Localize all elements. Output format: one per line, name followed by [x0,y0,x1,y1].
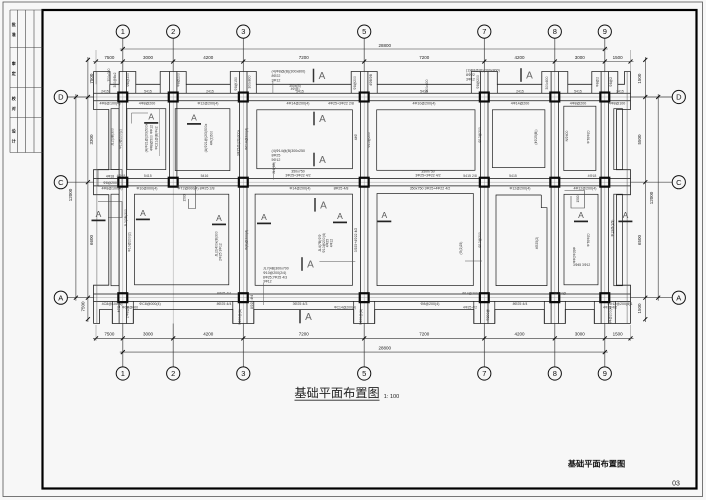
svg-text:1: 1 [121,27,125,36]
svg-text:4ΦB: 4ΦB [117,305,121,313]
svg-text:A: A [261,212,267,222]
column 5C [360,178,369,187]
grid line axis 3 [242,38,244,367]
svg-text:ΦT6Φ20: ΦT6Φ20 [587,130,591,143]
strip footing axis 1 [118,72,120,324]
svg-text:Φ10@000(4): Φ10@000(4) [137,186,158,190]
svg-text:28800: 28800 [379,43,392,48]
room footing edge 78 row D-C [492,110,545,168]
axis bubble A right [672,291,685,304]
svg-text:JL1(1B): JL1(1B) [272,162,276,174]
svg-text:6600: 6600 [89,234,94,245]
svg-text:Φ12@200(4): Φ12@200(4) [198,101,219,105]
svg-text:4Φ8@200: 4Φ8@200 [570,101,587,105]
svg-text:4Φ25+3Φ22 2/8: 4Φ25+3Φ22 2/8 [328,101,354,105]
axis bubble 9 bottom [598,367,611,380]
svg-text:ΦC18@200(4): ΦC18@200(4) [245,128,249,150]
svg-text:1500: 1500 [613,55,624,60]
svg-text:1500: 1500 [576,195,580,202]
svg-text:7500: 7500 [81,301,86,312]
left wall inner line [96,72,98,324]
room footing edge 9R row D-C [614,109,623,170]
svg-text:300x800: 300x800 [425,79,429,92]
svg-text:Φ8@200: Φ8@200 [476,75,480,89]
strip footing D [94,92,631,94]
svg-text:4Φ12@200(4): 4Φ12@200(4) [574,186,597,190]
svg-text:7500: 7500 [104,332,115,337]
svg-text:4Φ12: 4Φ12 [329,239,333,247]
svg-text:ΦT2@000(4) 8Φ25 2/8: ΦT2@000(4) 8Φ25 2/8 [178,186,215,190]
svg-text:8Φ25: 8Φ25 [272,154,281,158]
svg-text:300@Bx2: 300@Bx2 [113,72,117,87]
svg-text:3Φ25+3Φ22 4/2: 3Φ25+3Φ22 4/2 [415,174,440,178]
strip footing axis 9 [600,72,602,324]
svg-text:4Φ8@100(4): 4Φ8@100(4) [100,101,121,105]
column 1D [118,92,127,101]
room footing edge 9R row C-A [614,194,623,286]
svg-text:ΦΦ2Φ39Φ: ΦΦ2Φ39Φ [573,246,577,263]
svg-text:4200: 4200 [203,332,214,337]
section cut A top notch 3-5 [313,69,315,83]
svg-text:7200: 7200 [419,332,430,337]
svg-text:3Φ25+4Φ22 4/2: 3Φ25+4Φ22 4/2 [354,228,358,252]
svg-text:Φ8@200(4): Φ8@200(4) [421,302,440,306]
svg-text:1: 1 [121,369,125,378]
axis bubble 5 top [358,25,371,38]
leader room 3-5 C-A [263,283,265,305]
svg-text:4Φ8@100: 4Φ8@100 [609,101,626,105]
grid line axis 1 [122,38,124,367]
room footing edge 12 row D-C [127,109,166,170]
axis bubble 7 bottom [478,367,491,380]
grid line axis A [67,297,672,299]
svg-text:Φ10@200(2): Φ10@200(2) [119,129,123,149]
svg-text:(A)Φ21@(2/3)500x: (A)Φ21@(2/3)500x [145,123,149,152]
column 9C [600,178,609,187]
svg-text:3000: 3000 [575,55,586,60]
svg-text:JL2(3B)300: JL2(3B)300 [124,209,128,227]
room footing edge 57 row C-A [377,194,473,286]
svg-text:3300: 3300 [89,134,94,145]
svg-text:300x800: 300x800 [248,75,252,88]
column 5A [360,293,369,302]
svg-text:2415: 2415 [101,89,109,93]
leader room 3-5 C-A right [319,260,355,262]
svg-text:批: 批 [12,21,16,27]
svg-text:8Φ25 4/4: 8Φ25 4/4 [217,302,232,306]
axis bubble 7 top [478,25,491,38]
step leader room 8-9 below C [565,191,585,209]
svg-text:Φ14@200(4): Φ14@200(4) [290,186,311,190]
svg-text:C: C [58,178,64,187]
svg-text:Φ8@2: Φ8@2 [609,77,613,87]
svg-text:12000: 12000 [68,188,73,201]
svg-text:4Φ18: 4Φ18 [588,174,597,178]
svg-text:Φ200@(A): Φ200@(A) [359,309,363,325]
svg-text:9: 9 [603,369,607,378]
svg-text:5: 5 [362,27,366,36]
column 8C [550,178,559,187]
grid line axis 2 [172,38,174,367]
svg-text:对: 对 [12,105,16,111]
svg-text:3Φ12: 3Φ12 [263,280,272,284]
svg-text:A: A [96,209,102,219]
svg-text:3Φ25+3Φ22 4/2: 3Φ25+3Φ22 4/2 [285,174,310,178]
svg-text:ΦT6Φ20: ΦT6Φ20 [587,233,591,246]
svg-text:A: A [307,260,314,271]
svg-text:ΦC14@200(4): ΦC14@200(4) [334,305,356,309]
svg-text:3Φ45 3Φ12: 3Φ45 3Φ12 [573,263,590,267]
strip footing axis 8 [550,72,552,324]
room footing edge 57 row D-C [377,110,475,171]
room footing edge 78 row C-A (with corner notch) [496,195,547,286]
svg-text:C: C [676,178,682,187]
svg-text:7200: 7200 [419,55,430,60]
column 3D [239,92,248,101]
svg-text:Φ8@200: Φ8@200 [103,181,117,185]
svg-text:A: A [319,114,326,125]
extension line right end top [630,50,632,72]
right dimension chain [644,57,646,322]
svg-text:1500: 1500 [637,73,642,84]
svg-text:Φ(4)@200(4): Φ(4)@200(4) [245,230,249,250]
svg-text:5415: 5415 [144,174,152,178]
left foundation edge (crenellated) [94,72,109,324]
svg-text:A: A [381,210,387,220]
svg-text:3Φ12: 3Φ12 [466,78,475,82]
svg-text:A: A [337,211,343,221]
room footing edge L1 row D-C [111,109,119,170]
svg-text:7500: 7500 [104,55,115,60]
axis bubble 9 top [598,25,611,38]
svg-text:Φ12@200: Φ12@200 [478,232,482,248]
svg-text:Φ8@200: Φ8@200 [177,73,181,87]
room footing edge 35 row C-A [255,194,352,285]
svg-text:3000: 3000 [575,332,586,337]
svg-text:5415: 5415 [574,89,582,93]
grid line axis D [67,96,672,98]
top overall dimension 28800 [120,48,608,50]
grid line axis C [67,181,672,183]
svg-text:300x800: 300x800 [545,76,549,89]
svg-text:8: 8 [553,27,557,36]
svg-text:03: 03 [672,481,680,488]
column 3C [239,178,248,187]
section cut A bottom notch 3-5 [299,310,301,324]
svg-text:5415: 5415 [144,89,152,93]
svg-text:3000: 3000 [143,332,154,337]
svg-text:基础平面布置图: 基础平面布置图 [294,386,379,400]
room footing edge 23 row D-C [175,109,230,171]
svg-text:Φ10@200(2): Φ10@200(2) [128,232,132,252]
axis bubble 8 top [548,25,561,38]
room footing edge 89 row D-C [564,106,596,170]
svg-text:计: 计 [12,138,16,144]
svg-text:2415: 2415 [516,89,524,93]
bottom segment dimension row [93,337,634,339]
left overall dimension 12000 [75,94,77,301]
svg-text:7500: 7500 [89,73,94,84]
room footing edge 35 row D-C [257,110,353,169]
svg-text:(4)Φ14@(B)300x250: (4)Φ14@(B)300x250 [272,149,305,153]
step leader room 1-2 D-C [132,113,149,124]
svg-text:准: 准 [12,31,16,37]
svg-text:4Φ10@200(4): 4Φ10@200(4) [413,101,436,105]
column 9A [600,293,609,302]
grid line axis 9 [604,38,606,367]
svg-text:(A)Φ21@(2/3)500x: (A)Φ21@(2/3)500x [204,123,208,152]
bottom overall dimension 28800 [120,351,608,353]
strip footing C [94,178,631,180]
svg-text:4ΦBΦB: 4ΦBΦB [369,73,373,86]
svg-text:A: A [191,113,197,123]
svg-text:4Φ8@100(4): 4Φ8@100(4) [102,186,123,190]
svg-text:8Φ25 4/8: 8Φ25 4/8 [334,186,349,190]
column 7A [480,293,489,302]
svg-text:A: A [58,293,63,302]
strip footing A [94,293,631,295]
step leader below C at axis 2 [177,186,196,209]
svg-text:8Φ25 4/4: 8Φ25 4/4 [217,292,231,296]
svg-text:设: 设 [12,128,16,134]
svg-text:7: 7 [482,27,486,36]
svg-text:ΦC8@000: ΦC8@000 [122,305,138,309]
leader room 5-7 C-A [465,260,482,262]
svg-text:1500: 1500 [183,194,187,201]
axis bubble 1 top [116,25,129,38]
axis bubble 2 bottom [167,367,180,380]
svg-text:(1)Φ8@(B)(300x800): (1)Φ8@(B)(300x800) [466,69,500,73]
svg-text:(4Φ25(B)): (4Φ25(B)) [534,129,538,144]
room footing edge 89 row C-A [564,194,598,284]
axis bubble D left [54,90,67,103]
section cut A room 3-5 C-A lower [301,257,303,271]
svg-text:7200: 7200 [299,332,310,337]
svg-text:3: 3 [241,27,245,36]
svg-text:2: 2 [171,27,175,36]
svg-text:Φ13@(2/3): Φ13@(2/3) [611,220,615,237]
svg-text:Φ10@200(2/4): Φ10@200(2/4) [263,271,286,275]
axis bubble 3 top [237,25,250,38]
svg-text:D: D [676,93,682,102]
column 7D [480,92,489,101]
svg-text:8Φ22: 8Φ22 [272,74,281,78]
svg-text:4Φ(B): 4Φ(B) [291,87,300,91]
left dimension chain [87,57,89,322]
column 2C [169,178,178,187]
svg-text:4Φ14@200(4): 4Φ14@200(4) [287,101,310,105]
strip footing axis 5 [360,72,362,324]
column 8A [550,293,559,302]
axis bubble 5 bottom [358,367,371,380]
svg-text:(Φ(2)25): (Φ(2)25) [459,242,463,255]
extension line right end bottom [630,325,632,341]
svg-text:1500: 1500 [613,332,624,337]
svg-text:ΦB@200: ΦB@200 [126,73,130,87]
svg-text:A: A [676,293,681,302]
column 1A [118,293,127,302]
column 2D [169,92,178,101]
right overall dimension 12000 [657,94,659,301]
svg-text:3: 3 [241,369,245,378]
svg-text:A: A [216,213,222,223]
leader top notch 3-5 [272,81,274,93]
extension line left end top [95,50,97,84]
column 7C [480,178,489,187]
text divider room 1-2 D-C [159,109,161,156]
svg-text:7200: 7200 [299,55,310,60]
svg-text:JL7(4B)300x700: JL7(4B)300x700 [263,267,289,271]
room footing edge L1 row C-A [111,194,119,286]
svg-text:A: A [148,112,154,122]
svg-text:Φ12@200: Φ12@200 [478,127,482,143]
svg-text:A: A [305,312,312,323]
column 9D [600,92,609,101]
extension line left end bottom [95,325,97,341]
svg-text:8: 8 [553,369,557,378]
right foundation edge (crenellated) [617,72,631,324]
small room-let left of axis 1 at C [98,170,122,187]
svg-text:5416: 5416 [201,174,209,178]
column 8D [550,92,559,101]
svg-text:9: 9 [603,27,607,36]
svg-text:Φ14@200: Φ14@200 [462,292,478,296]
svg-text:5: 5 [362,369,366,378]
svg-text:1: 100: 1: 100 [384,394,400,400]
right wall inner line [626,72,628,324]
svg-text:A: A [526,71,533,82]
svg-text:4Φ14@200: 4Φ14@200 [511,101,530,105]
axis bubble 8 bottom [548,367,561,380]
axis bubble A left [54,291,67,304]
svg-text:A: A [319,71,326,82]
svg-text:4200: 4200 [514,332,525,337]
leader room 3-5 D-C [273,163,275,180]
svg-text:7: 7 [482,369,486,378]
svg-text:2415: 2415 [206,89,214,93]
grid line axis 5 [363,38,365,367]
svg-text:(4)Φ8@(B)(300x800): (4)Φ8@(B)(300x800) [272,70,306,74]
svg-text:A: A [140,208,146,218]
svg-text:审: 审 [12,60,16,66]
svg-text:3000: 3000 [143,55,154,60]
column 1C [118,178,127,187]
svg-text:4Φ25 4/2: 4Φ25 4/2 [463,305,477,309]
svg-text:4Φ18: 4Φ18 [117,174,126,178]
svg-text:ΦC8@000(4): ΦC8@000(4) [139,302,161,306]
svg-text:ΦC14@: ΦC14@ [554,292,567,296]
svg-text:3Φ25@(2/3)300x: 3Φ25@(2/3)300x [237,130,241,156]
svg-text:4C8@100(4): 4C8@100(4) [102,302,123,306]
svg-text:700x300: 700x300 [107,68,111,81]
svg-text:3Φ25 4/3: 3Φ25 4/3 [293,302,308,306]
svg-text:4Φ25(2): 4Φ25(2) [535,237,539,250]
svg-text:4Φ(2)500: 4Φ(2)500 [210,131,214,146]
svg-text:4200: 4200 [203,55,214,60]
section cut A room 3-5 C-A upper [314,198,316,212]
column 3A [239,293,248,302]
svg-text:350x750 3Φ25+4Φ22 4/2: 350x750 3Φ25+4Φ22 4/2 [410,186,451,190]
axis bubble C left [54,176,67,189]
svg-text:2Φ8@B: 2Φ8@B [126,305,130,318]
svg-text:NΦ400: NΦ400 [565,130,569,141]
svg-text:12000: 12000 [649,191,654,204]
axis bubble C right [672,176,685,189]
svg-text:Φ8@200: Φ8@200 [353,76,357,90]
axis bubble 2 top [167,25,180,38]
svg-text:基础平面布置图: 基础平面布置图 [567,459,625,469]
svg-text:Φ8@2: Φ8@2 [596,77,600,87]
svg-text:Φ8@150: Φ8@150 [234,77,238,91]
svg-text:Φ200@: Φ200@ [486,309,490,321]
axis bubble 1 bottom [116,367,129,380]
svg-text:5Φ12: 5Φ12 [272,158,281,162]
svg-text:4Φ8@200: 4Φ8@200 [139,101,156,105]
svg-text:5415 2/8: 5415 2/8 [463,174,477,178]
grid line axis 7 [483,38,485,367]
svg-text:Φ200@(A): Φ200@(A) [238,309,242,325]
svg-text:A: A [320,200,327,211]
svg-text:Φ12@200(4): Φ12@200(4) [510,186,531,190]
svg-text:A: A [623,210,629,220]
svg-text:JL2(3B)300: JL2(3B)300 [111,128,115,146]
grid line axis 8 [554,38,556,367]
room footing edge 13 row C-A [135,194,229,285]
strip footing axis 3 [239,72,241,324]
left signature table [9,10,11,153]
svg-text:2: 2 [171,369,175,378]
svg-text:4200: 4200 [514,55,525,60]
top foundation edge (crenellated) [94,72,631,85]
svg-text:44Φ: 44Φ [354,133,358,140]
svg-text:8Φ22: 8Φ22 [466,73,475,77]
axis bubble D right [672,90,685,103]
svg-text:8Φ25 4/4: 8Φ25 4/4 [250,295,254,309]
column 5D [360,92,369,101]
step leader room 1-2 below C [98,202,122,218]
svg-text:D: D [58,93,64,102]
strip footing axis 7 [480,72,482,324]
svg-text:2Φ25 3Φ12: 2Φ25 3Φ12 [219,243,223,261]
svg-text:4Φ@200(A): 4Φ@200(A) [609,306,613,324]
svg-text:A: A [578,210,584,220]
svg-text:8Φ25 4/4: 8Φ25 4/4 [513,302,528,306]
svg-text:28800: 28800 [379,346,392,351]
axis bubble 3 bottom [237,367,250,380]
svg-text:5415: 5415 [509,174,517,178]
bottom foundation edge (crenellated) [94,310,631,324]
svg-text:5500: 5500 [637,134,642,145]
svg-text:8Φ25;7Φ25 4/3: 8Φ25;7Φ25 4/3 [263,275,287,279]
svg-text:ΦC21@(B)Φx2: ΦC21@(B)Φx2 [155,126,159,149]
svg-text:Φ10@200: Φ10@200 [367,132,371,148]
section cut A room 3-5 D-C lower [313,153,315,167]
svg-text:A: A [319,155,326,166]
strip footing axis 2 [169,72,171,186]
section cut A room 3-5 D-C upper [313,112,315,126]
top segment dimension row [93,61,634,63]
svg-text:4ΦB@500 ΦΦ12: 4ΦB@500 ΦΦ12 [150,125,154,151]
svg-text:定: 定 [11,70,16,76]
title underline [295,399,380,401]
section cut A top notch 5-7 [520,68,522,82]
svg-text:2415: 2415 [616,89,624,93]
svg-text:6500: 6500 [637,234,642,245]
svg-text:4Φ18: 4Φ18 [106,175,114,179]
svg-text:1500: 1500 [637,303,642,314]
